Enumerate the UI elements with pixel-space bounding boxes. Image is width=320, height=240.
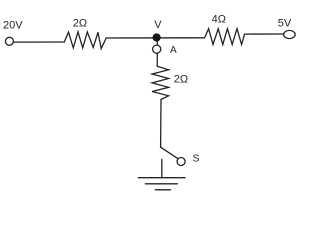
svg-text:20V: 20V [3,19,23,31]
svg-text:V: V [154,19,162,31]
svg-text:A: A [170,45,177,56]
switch terminal S [177,158,185,166]
wire [106,37,204,39]
terminal 20V [5,37,13,45]
resistor R1 2ohm [64,32,106,49]
wire [156,41,158,45]
svg-text:4Ω: 4Ω [212,14,226,26]
terminal 5V [284,30,296,38]
resistor R3 2ohm [152,66,169,99]
ground bar 1 [139,177,186,179]
svg-text:2Ω: 2Ω [73,18,87,30]
ground bar 2 [145,183,177,185]
resistor R2 4ohm [205,29,245,45]
wire [14,41,65,43]
wire [245,33,284,35]
svg-text:2Ω: 2Ω [174,74,188,86]
wire [160,100,162,148]
node A terminal [153,45,161,53]
switch blade [161,147,178,158]
ground bar 3 [155,189,170,191]
wire [156,53,158,66]
svg-text:S: S [193,152,200,164]
ground stub wire [161,159,163,177]
svg-text:5V: 5V [278,17,292,29]
node V junction dot [153,33,161,41]
